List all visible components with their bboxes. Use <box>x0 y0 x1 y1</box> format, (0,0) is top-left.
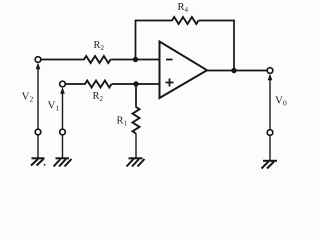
terminal V1 (open circle, top) <box>60 81 66 87</box>
ground (V0) <box>262 161 278 169</box>
resistor R1 (to ground) <box>133 107 140 134</box>
ground (R1) <box>127 158 145 166</box>
op-amp U1 <box>160 42 208 99</box>
wire V0 ground stub <box>269 135 271 160</box>
wire feedback top left <box>135 20 173 22</box>
terminal V1 (open circle, bottom) <box>60 129 66 135</box>
wire V2 vertical lead <box>37 66 39 129</box>
node C junction dot (output / feedback) <box>231 68 236 73</box>
wire feedback vertical left <box>135 21 137 60</box>
node A junction dot (inverting input / feedback) <box>133 57 138 62</box>
wire op-amp output <box>207 70 267 72</box>
node B junction dot (non-inverting input / R1) <box>133 81 138 86</box>
wire V2 ground stub <box>37 135 39 158</box>
wire feedback top right <box>199 20 235 22</box>
resistor R4 (feedback) <box>172 17 199 24</box>
wire V1 ground stub <box>62 135 64 158</box>
resistor R2 (lower input) <box>85 81 112 88</box>
ground (V2) <box>31 158 45 165</box>
terminal V0 (open circle, bottom) <box>267 130 273 136</box>
wire R2 upper to inverting input <box>111 59 160 61</box>
terminal V2 (open circle, bottom) <box>35 129 41 135</box>
arrow on V0 lead (pointing up) <box>268 73 273 80</box>
terminal V2 (open circle, top) <box>35 57 41 63</box>
wire V0 vertical lead <box>269 77 271 130</box>
wire feedback vertical right <box>233 20 235 71</box>
terminal V0 (open circle, top) <box>267 68 273 74</box>
arrow on V1 lead (pointing up) <box>60 87 65 94</box>
resistor R2 (upper input) <box>84 56 111 63</box>
arrow on V2 lead (pointing up) <box>36 63 41 70</box>
wire R1 to ground <box>135 134 137 159</box>
wire V1 vertical lead <box>62 90 64 129</box>
wire from V2 terminal to R2 upper <box>41 59 85 61</box>
wire node B down to R1 <box>135 84 137 108</box>
wire R2 lower to non-inverting input <box>112 83 160 85</box>
ground (V1) <box>54 158 72 166</box>
wire from V1 terminal to R2 lower <box>65 83 85 85</box>
